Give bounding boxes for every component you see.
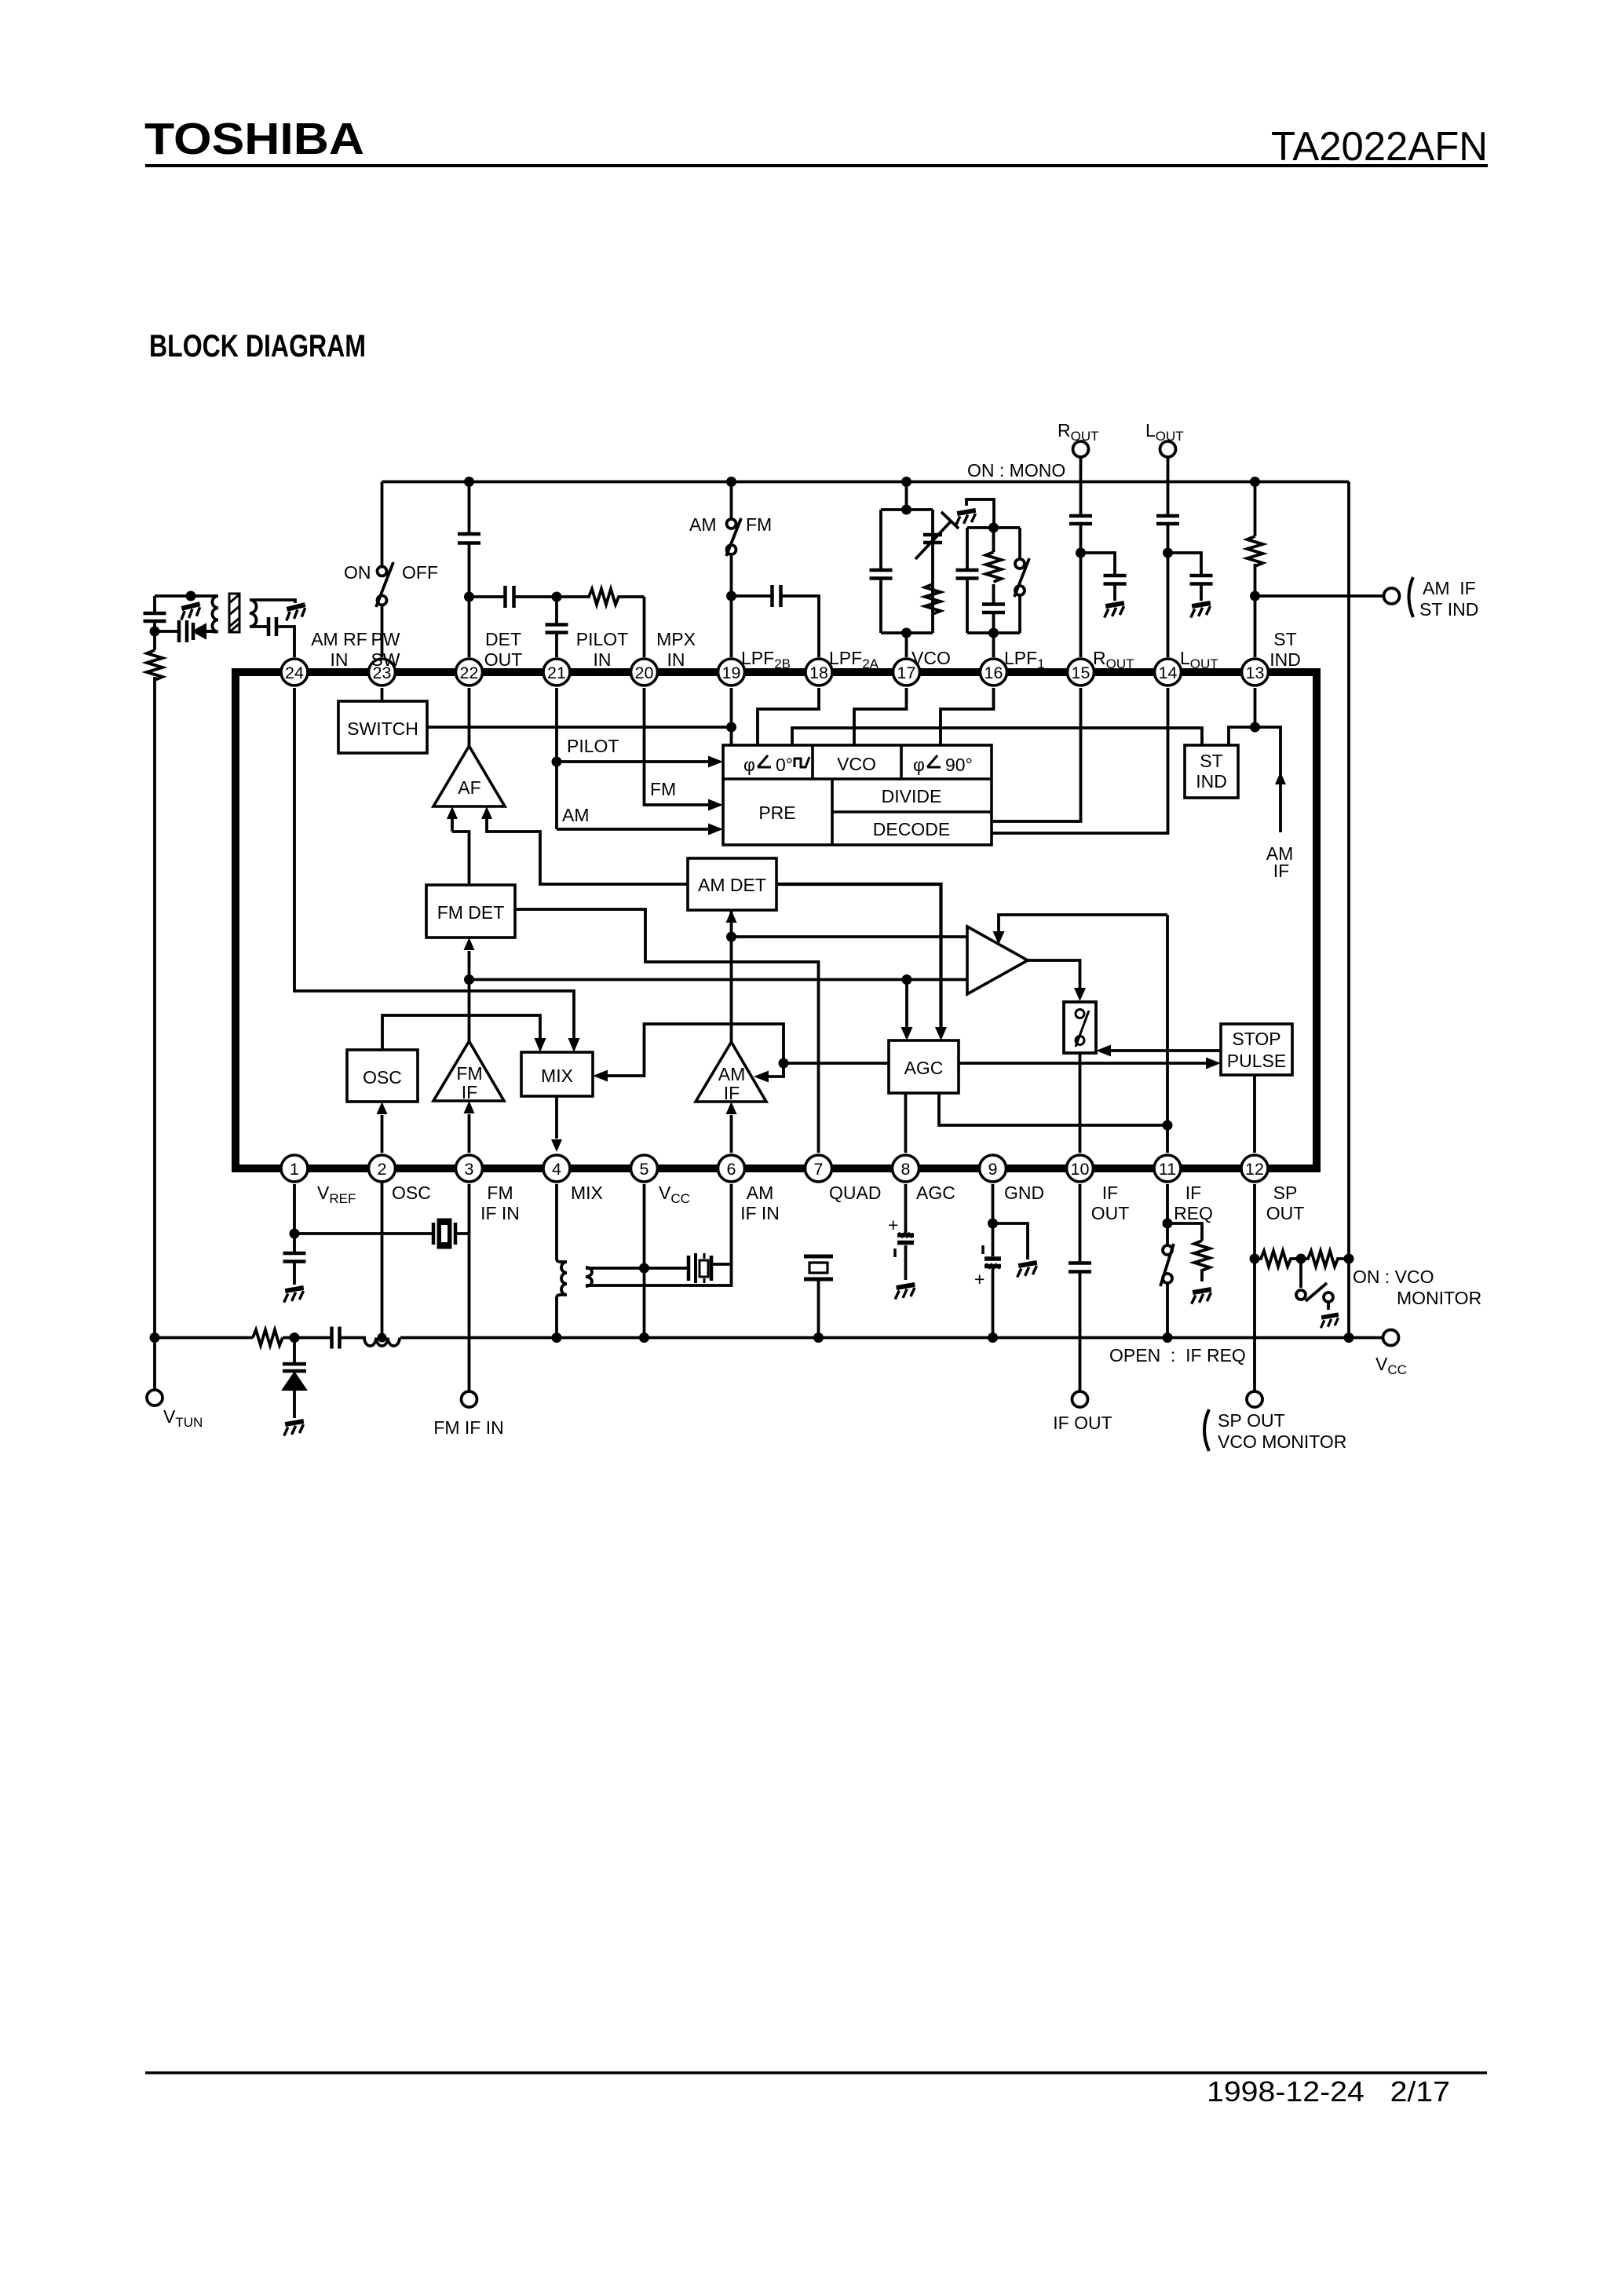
block AGC	[889, 1040, 959, 1093]
node junction GND branch	[988, 1219, 998, 1229]
pin 8	[893, 1155, 919, 1182]
svg-text:MIX: MIX	[541, 1066, 573, 1086]
wire pin 24 to MIX	[294, 688, 574, 1038]
node junction PILOT IN	[552, 592, 562, 602]
ground VCO monitor	[1319, 1314, 1340, 1328]
ground IF REQ	[1189, 1289, 1213, 1304]
svg-text:FM: FM	[746, 514, 772, 535]
pin 3	[456, 1155, 483, 1182]
crystal X1	[433, 1219, 455, 1248]
wire pin 3 to FM IF IN terminal	[468, 1184, 471, 1391]
terminal IF OUT	[1072, 1391, 1088, 1407]
svg-text:FM IF IN: FM IF IN	[433, 1417, 503, 1438]
wire filter right to pin 6	[711, 1184, 732, 1264]
svg-text:7: 7	[814, 1160, 824, 1179]
svg-text:8: 8	[901, 1160, 911, 1179]
capacitor on pin22 line	[458, 534, 480, 543]
capacitor VTUN line	[144, 613, 166, 621]
node junction AM RF bottom	[150, 627, 160, 637]
svg-text:11: 11	[1159, 1160, 1176, 1179]
wire OSC to MIX	[382, 1015, 540, 1050]
inductor OSC tank L1	[364, 1338, 400, 1347]
wire T2 secondary bottom	[586, 1264, 732, 1285]
wire pin 9 to bus	[992, 1184, 995, 1338]
resistor bus tuning	[253, 1330, 283, 1346]
svg-text:MPX: MPX	[656, 629, 696, 649]
svg-text:SWITCH: SWITCH	[347, 718, 418, 739]
resistor SP OUT second	[1301, 1251, 1349, 1267]
label phase 90 detector	[913, 755, 973, 775]
ground AGC cap	[893, 1285, 917, 1300]
svg-text:2: 2	[378, 1160, 387, 1179]
pin 10	[1067, 1155, 1094, 1182]
resonator QUAD ceramic X2	[804, 1256, 833, 1279]
inductor T2 primary	[561, 1262, 567, 1295]
node junction bus pin7	[813, 1333, 824, 1343]
arrow AF left input	[447, 806, 458, 819]
pin 1	[281, 1155, 308, 1182]
wire AGC bottom to pin 8	[904, 1093, 908, 1153]
svg-text:IF: IF	[1185, 1183, 1201, 1203]
svg-text:TA2022AFN: TA2022AFN	[1271, 124, 1488, 170]
svg-text:STOP: STOP	[1232, 1029, 1280, 1049]
wire AGC right to STOP PULSE	[959, 1062, 1207, 1065]
node junction DET OUT	[464, 592, 474, 602]
node junction pin13 inner	[1250, 722, 1260, 733]
header rule	[145, 164, 1488, 167]
svg-text:AM: AM	[747, 1183, 774, 1203]
block AM DET	[688, 858, 776, 910]
node junction bus pin5	[639, 1333, 649, 1343]
capacitor L OUT branch	[1190, 576, 1213, 584]
terminal R OUT	[1073, 441, 1089, 457]
wire STOP PULSE to mute switch	[1110, 1049, 1221, 1052]
node junction ST IND out	[1250, 591, 1260, 601]
node junction bus VTUN	[150, 1333, 160, 1343]
node junction pin19 rail	[726, 477, 736, 487]
pin 21	[543, 659, 570, 686]
block ST IND	[1185, 745, 1238, 798]
wire AGC top-left input	[905, 980, 908, 1028]
node junction VCO tank bottom	[901, 628, 911, 638]
capacitor electrolytic GND	[985, 1259, 1001, 1269]
svg-text:SP: SP	[1273, 1183, 1298, 1203]
wire pin 2 to tank coil	[381, 1183, 384, 1338]
svg-text:AGC: AGC	[916, 1183, 955, 1203]
block STOP PULSE	[1221, 1024, 1292, 1075]
svg-text:GND: GND	[1004, 1183, 1044, 1203]
svg-text:SW: SW	[371, 649, 400, 670]
terminal FM IF IN	[462, 1391, 477, 1407]
varactor D1	[283, 1338, 306, 1419]
svg-text:90°: 90°	[945, 755, 973, 775]
arrow pilot right	[708, 756, 723, 768]
wire rail down pin 13 upper	[1254, 482, 1257, 658]
capacitor electrolytic AGC	[897, 1233, 914, 1243]
arrow AGC input left	[901, 1027, 913, 1040]
arrow into MIX	[593, 1070, 608, 1082]
diode AM RF detector	[193, 623, 213, 640]
op-amp FM IF	[433, 1041, 504, 1102]
wire rail down pin 22 upper	[468, 482, 471, 658]
node junction LPF1 top	[988, 523, 999, 533]
svg-text:φ: φ	[913, 755, 925, 775]
capacitor R OUT line	[1069, 516, 1092, 524]
pin 18	[806, 659, 832, 686]
wire feedback from pin11 line	[999, 915, 1167, 931]
capacitor R OUT branch	[1104, 576, 1127, 584]
capacitor LPF1 left branch	[956, 570, 979, 579]
ground T1 secondary	[283, 605, 308, 620]
wire R OUT to pin 15	[1080, 457, 1083, 657]
svg-text:3: 3	[465, 1160, 474, 1179]
ground varactor	[282, 1421, 305, 1436]
pin 20	[631, 659, 658, 686]
pin 9	[980, 1155, 1006, 1182]
arrow into OSC	[377, 1102, 388, 1114]
pin 12	[1241, 1155, 1268, 1182]
svg-text:VCO: VCO	[911, 648, 951, 668]
wire L OUT to pin 14	[1167, 457, 1170, 657]
node junction tank tap	[378, 1333, 387, 1343]
svg-text:IF: IF	[1273, 861, 1289, 881]
wire AM DET to AF right input	[487, 817, 688, 884]
core transformer T1	[229, 594, 239, 632]
wire VCC bus	[155, 1336, 1383, 1340]
wire pin 1 to VREF network	[293, 1184, 296, 1234]
block PLL PRE/DIVIDE/DECODE U2	[723, 745, 992, 845]
arrow into AM DET	[726, 910, 737, 923]
pin 6	[718, 1155, 745, 1182]
svg-text:AM DET: AM DET	[698, 875, 766, 895]
wire AM DET out to AGC	[776, 884, 941, 1027]
wire pin 17 into PLL	[854, 688, 907, 745]
capacitor LPF1 middle branch	[982, 605, 1005, 613]
label minus pin8	[893, 1249, 897, 1257]
pin 15	[1068, 659, 1094, 686]
svg-text:φ: φ	[743, 755, 755, 775]
svg-text:5: 5	[640, 1160, 649, 1179]
wire pin21 upper capacitor lead	[555, 597, 558, 657]
svg-text:QUAD: QUAD	[829, 1183, 881, 1203]
wire AM RF top link	[155, 594, 213, 598]
wire T2 secondary top to filter	[586, 1267, 689, 1270]
wire LPF1 network frame	[967, 528, 1020, 657]
node junction bus VCC corner	[1344, 1333, 1354, 1343]
node junction VREF	[290, 1229, 300, 1239]
label minus pin9	[981, 1245, 985, 1254]
node junction pin17 rail	[901, 477, 911, 487]
op-amp main output buffer	[967, 927, 1028, 994]
wire to ground R branch	[1113, 584, 1116, 601]
capacitor VCO tank left branch	[870, 570, 893, 579]
arrow MIX out down	[551, 1139, 562, 1152]
wire STOP PULSE to pin 12	[1253, 1075, 1256, 1153]
resistor LPF1 middle branch	[986, 552, 1002, 582]
wire pin 23 to SWITCH	[381, 688, 384, 701]
arrow into STOP PULSE	[1206, 1058, 1221, 1069]
wire pin 8 to AGC cap	[904, 1184, 908, 1280]
svg-text:AM: AM	[718, 1064, 746, 1084]
terminal VCC	[1383, 1330, 1399, 1346]
inductor transformer T1 primary	[212, 596, 218, 632]
svg-text:10: 10	[1071, 1160, 1090, 1179]
pin 19	[718, 659, 745, 686]
svg-text:21: 21	[547, 664, 566, 682]
svg-text:OFF: OFF	[402, 562, 438, 583]
arrow into AM IF	[754, 1071, 769, 1083]
svg-text:IND: IND	[1269, 649, 1301, 670]
svg-text:FM: FM	[650, 779, 676, 799]
wire LPF2B to LPF2A coupling	[732, 596, 820, 657]
inductor transformer T1 secondary	[250, 600, 257, 627]
svg-text:OUT: OUT	[1091, 1203, 1130, 1223]
svg-text:IF IN: IF IN	[740, 1203, 780, 1223]
terminal AM IF / ST IND	[1384, 588, 1400, 604]
block FM DET	[426, 885, 515, 938]
wire OSC to pin 2	[381, 1115, 384, 1153]
wire rail down to PW switch	[381, 482, 384, 567]
wire IF REQ branch	[1167, 1223, 1202, 1241]
node junction VCO monitor switch	[1296, 1254, 1306, 1264]
pin 4	[543, 1155, 570, 1182]
capacitor L OUT line	[1156, 516, 1179, 524]
IC package outline	[236, 672, 1317, 1168]
svg-text:15: 15	[1072, 664, 1090, 682]
pin 11	[1154, 1155, 1181, 1182]
node junction pin5 filter	[639, 1263, 649, 1274]
wire LPF1 ground stub	[966, 499, 994, 528]
arrow AM right	[708, 824, 723, 835]
resistor IF REQ pull	[1194, 1241, 1210, 1281]
node junction limiter tap	[464, 974, 474, 985]
node junction AGC distribution	[779, 1058, 789, 1069]
svg-text:AM RF: AM RF	[311, 629, 367, 649]
arrow AM IF up	[1275, 772, 1286, 784]
wire DET OUT to PILOT IN	[469, 595, 557, 598]
svg-text:20: 20	[635, 664, 654, 682]
svg-text:ST IND: ST IND	[1419, 599, 1478, 620]
node junction AM RF top	[186, 591, 196, 601]
resistor ST IND pull	[1248, 536, 1263, 566]
svg-text:PILOT: PILOT	[576, 629, 628, 649]
svg-text:FM: FM	[456, 1063, 482, 1084]
wire switch to pin 19	[730, 554, 733, 657]
capacitor coupling DET-PILOT	[506, 586, 514, 608]
svg-text:ON: ON	[344, 562, 371, 583]
node junction pin22 rail	[464, 477, 474, 487]
wire FM IF to pin 3	[468, 1114, 471, 1153]
ground R OUT branch	[1102, 603, 1126, 618]
svg-text:IF: IF	[1102, 1183, 1118, 1203]
svg-text:1: 1	[290, 1160, 299, 1179]
wire VTUN left vertical top	[153, 596, 156, 1390]
svg-text:0°: 0°	[776, 755, 793, 775]
svg-text:IF IN: IF IN	[480, 1203, 520, 1223]
wire DECODE out to pin 14	[992, 688, 1168, 833]
switch IF REQ	[1160, 1244, 1174, 1286]
inductor T2 secondary	[586, 1267, 592, 1286]
svg-text:IF: IF	[462, 1082, 477, 1102]
svg-text:PULSE: PULSE	[1227, 1051, 1286, 1071]
node junction AM IF out	[726, 932, 736, 942]
wire limiter line to amp	[469, 978, 968, 982]
svg-text:AM: AM	[562, 805, 590, 825]
svg-text:ST: ST	[1200, 751, 1222, 771]
svg-text:12: 12	[1245, 1160, 1264, 1179]
wire AM IF to AM DET	[730, 910, 733, 1042]
node junction AGC tap	[902, 974, 912, 985]
block OSC	[347, 1050, 418, 1102]
pin 5	[631, 1155, 658, 1182]
terminal SP OUT	[1247, 1391, 1262, 1407]
svg-text:+: +	[974, 1269, 985, 1289]
svg-text:OPEN : IF REQ: OPEN : IF REQ	[1109, 1345, 1246, 1366]
wire PILOT into PLL	[557, 760, 709, 763]
wire R OUT branch	[1081, 553, 1116, 575]
svg-text:13: 13	[1246, 664, 1265, 682]
pin 17	[893, 659, 920, 686]
trimmer capacitor VCO	[923, 535, 942, 543]
capacitor bus coupling	[332, 1327, 340, 1349]
arrow pin24 into MIX	[568, 1038, 580, 1052]
ground LPF1 top	[954, 510, 977, 525]
svg-text:SP OUT: SP OUT	[1218, 1410, 1285, 1431]
wire T1 secondary bottom to pin 24	[255, 627, 294, 657]
terminal VTUN	[147, 1390, 163, 1406]
svg-text:ST: ST	[1273, 629, 1296, 649]
wire amp output to mute switch	[1028, 960, 1080, 988]
node junction bus pin9	[988, 1333, 998, 1343]
capacitor IF OUT	[1069, 1263, 1091, 1272]
switch AM/FM mode	[726, 518, 741, 556]
svg-text:VCO: VCO	[837, 754, 876, 774]
arrow AGC input right	[935, 1027, 947, 1040]
node junction SP OUT divider	[1250, 1254, 1260, 1264]
terminal L OUT	[1160, 441, 1176, 457]
wire ON:MONO top rail	[382, 481, 1350, 484]
switch VCO monitor	[1296, 1283, 1333, 1310]
wire VREF to crystal	[294, 1232, 469, 1235]
wire AGC to AM IF gain	[767, 1063, 784, 1077]
svg-text:AGC: AGC	[904, 1058, 944, 1078]
wire AM RF bottom link	[155, 630, 213, 633]
node junction VCO tank top	[901, 505, 911, 515]
svg-text:IN: IN	[667, 649, 685, 670]
svg-text:FM: FM	[487, 1183, 513, 1203]
node junction pin 11 line	[1163, 1121, 1173, 1131]
arrow into mute switch	[1074, 988, 1086, 1001]
svg-text:9: 9	[988, 1160, 998, 1179]
switch mute SW1	[1064, 1002, 1096, 1053]
svg-text:24: 24	[285, 664, 304, 682]
wire to AM IF / ST IND terminal	[1255, 594, 1385, 598]
node junction L OUT branch	[1163, 548, 1173, 558]
op-amp AM IF	[696, 1042, 766, 1103]
node junction bus pin4	[552, 1333, 562, 1343]
wire VREF cap to ground	[293, 1234, 296, 1285]
svg-text:IF OUT: IF OUT	[1053, 1413, 1112, 1433]
wire pin 11 vertical	[1166, 915, 1169, 1153]
node junction pilot tap	[552, 757, 562, 767]
capacitor AM RF coupling	[269, 617, 276, 636]
wire T1 secondary top to ground	[255, 600, 295, 603]
wire AM IF out to amp input	[732, 935, 968, 938]
wire FM DET out to QUAD pin 7	[515, 909, 819, 1153]
label brace SP OUT	[1204, 1409, 1209, 1451]
switch PW ON/OFF	[376, 562, 393, 607]
wire to ground L branch	[1200, 584, 1203, 601]
svg-text:OSC: OSC	[392, 1183, 431, 1203]
node junction switch-pin19	[726, 722, 736, 733]
wire rail down to AM/FM switch	[730, 482, 733, 520]
capacitor VREF bypass	[283, 1253, 306, 1262]
svg-text:IF: IF	[724, 1083, 740, 1103]
arrow into AM IF bottom	[726, 1102, 737, 1114]
arrow into FM DET	[464, 938, 475, 950]
wire VCO monitor switch stub	[1299, 1259, 1302, 1288]
wire pin 11 chain	[1166, 1184, 1169, 1338]
svg-text:4: 4	[552, 1160, 561, 1179]
svg-text:+: +	[888, 1215, 898, 1235]
ground VREF	[282, 1288, 305, 1303]
wire PLL to ST IND box	[792, 728, 1202, 745]
ground AM RF top	[178, 604, 203, 620]
svg-text:FM DET: FM DET	[437, 902, 505, 923]
arrow FM right	[708, 799, 723, 811]
arrow AF right input	[481, 806, 492, 819]
svg-text:OUT: OUT	[484, 649, 523, 670]
wire AGC left out	[784, 1062, 889, 1065]
svg-text:MONITOR: MONITOR	[1397, 1288, 1481, 1308]
capacitor coupling pin19-pin18	[773, 585, 781, 607]
pin 2	[369, 1155, 396, 1182]
svg-text:AM IF: AM IF	[1423, 578, 1476, 598]
svg-text:19: 19	[722, 664, 741, 682]
block SWITCH U-SW	[338, 701, 427, 753]
wire pin 20 FM into PLL	[645, 688, 710, 805]
wire GND branch right	[993, 1223, 1028, 1260]
svg-text:VCO MONITOR: VCO MONITOR	[1218, 1431, 1346, 1452]
svg-text:AF: AF	[458, 777, 480, 798]
svg-text:IN: IN	[331, 649, 349, 670]
svg-text:6: 6	[727, 1160, 736, 1179]
wire AGC to MIX gain	[607, 1024, 784, 1076]
wire rail to VCO tank top	[905, 482, 908, 510]
wire pin 13 junction	[1229, 688, 1255, 745]
wire AGC bottom to pin11 node	[939, 1093, 1167, 1125]
footer rule	[145, 2071, 1487, 2075]
wire SWITCH output to pin19 line	[427, 726, 732, 729]
wire pin 16 into PLL	[941, 688, 994, 745]
svg-text:OUT: OUT	[1266, 1203, 1305, 1223]
wire pin 18 into PLL	[758, 688, 819, 745]
wire pin 22 to AF amp	[468, 688, 471, 748]
svg-text:REQ: REQ	[1174, 1203, 1213, 1223]
wire pin 12 to SP OUT terminal	[1253, 1184, 1256, 1391]
arrow into FM IF	[464, 1101, 475, 1113]
svg-text:AM: AM	[689, 514, 717, 535]
wire AM IF feed to pin13 node	[1255, 727, 1281, 832]
wire DIVIDE out to pin 15	[992, 688, 1081, 821]
arrow OSC into MIX	[535, 1038, 546, 1052]
arrow into mute switch right	[1096, 1045, 1111, 1057]
wire AM IF to pin 6	[730, 1115, 733, 1153]
wire VCO tank frame	[881, 510, 933, 657]
svg-text:MIX: MIX	[571, 1183, 603, 1203]
ground L OUT branch	[1189, 603, 1212, 618]
svg-text:PILOT: PILOT	[567, 736, 619, 756]
